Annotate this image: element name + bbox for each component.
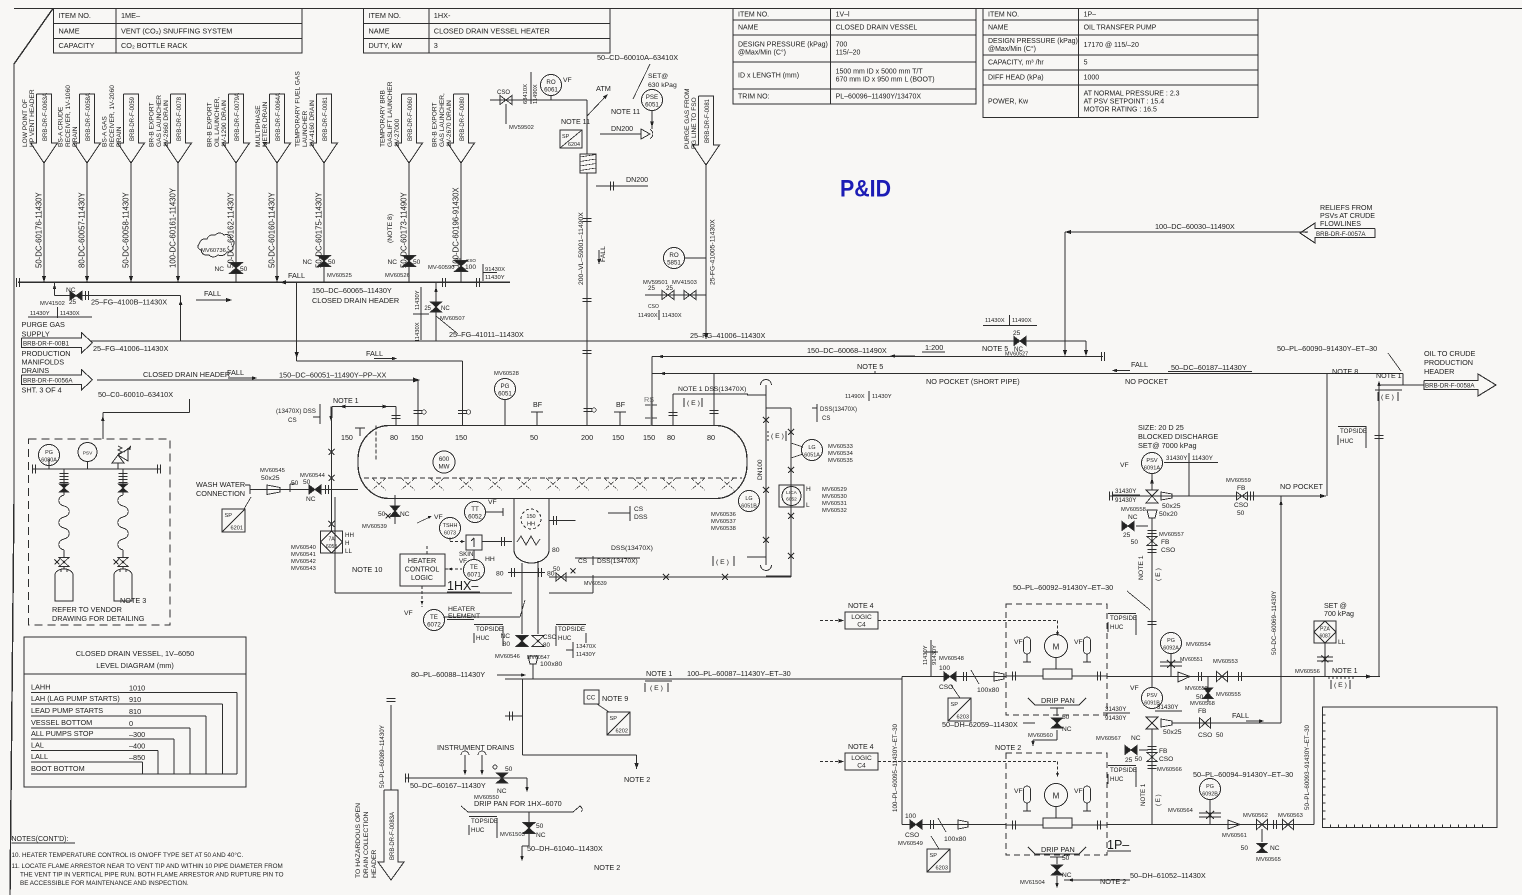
svg-text:50–PL–60093–91430Y–ET–30: 50–PL–60093–91430Y–ET–30: [1304, 724, 1311, 810]
svg-text:50x20: 50x20: [1159, 511, 1178, 518]
svg-text:6071: 6071: [467, 572, 481, 579]
svg-text:MV60528: MV60528: [494, 371, 519, 377]
svg-text:6061: 6061: [544, 87, 558, 94]
svg-text:VF: VF: [404, 610, 413, 617]
svg-text:TOPSIDE: TOPSIDE: [1110, 767, 1137, 774]
svg-text:LAUNCHER: LAUNCHER: [302, 110, 309, 147]
svg-text:NAME: NAME: [369, 26, 390, 35]
svg-text:13470X: 13470X: [576, 644, 596, 650]
svg-text:150: 150: [411, 433, 423, 442]
svg-text:NC: NC: [1062, 726, 1072, 733]
svg-text:MV60507: MV60507: [440, 316, 465, 322]
svg-text:MV60533: MV60533: [828, 444, 853, 450]
svg-text:CSO: CSO: [1234, 502, 1248, 509]
svg-text:PL–60096–11490Y/13470X: PL–60096–11490Y/13470X: [836, 94, 922, 101]
svg-text:GAS LAUNCHER,: GAS LAUNCHER,: [439, 93, 446, 147]
svg-text:6092A: 6092A: [1163, 646, 1179, 652]
svg-text:VF: VF: [1120, 462, 1129, 469]
svg-text:HP VENT HEADER: HP VENT HEADER: [29, 89, 36, 147]
svg-text:MV60543: MV60543: [291, 566, 316, 572]
svg-text:PG: PG: [1167, 638, 1175, 644]
svg-text:ATM: ATM: [596, 84, 611, 93]
svg-text:LOGIC: LOGIC: [411, 574, 433, 582]
svg-text:DN100: DN100: [757, 459, 764, 480]
svg-text:NC: NC: [306, 496, 316, 503]
svg-text:FB: FB: [1198, 708, 1207, 715]
svg-text:NC: NC: [441, 306, 450, 312]
svg-text:50: 50: [328, 259, 336, 266]
svg-text:CAPACITY, m³ /hr: CAPACITY, m³ /hr: [988, 60, 1044, 67]
svg-text:( E ): ( E ): [1334, 682, 1347, 689]
svg-text:BRB-DR-F-0080: BRB-DR-F-0080: [460, 96, 466, 141]
svg-text:NOTE 10: NOTE 10: [352, 565, 382, 574]
svg-text:91430Y: 91430Y: [1115, 497, 1136, 504]
svg-text:11430Y: 11430Y: [30, 311, 50, 317]
svg-text:MV60566: MV60566: [1157, 767, 1182, 773]
svg-text:50-DC-60162-11430Y: 50-DC-60162-11430Y: [227, 191, 236, 268]
svg-text:MV61503: MV61503: [500, 832, 525, 838]
svg-text:6087: 6087: [1319, 634, 1330, 640]
svg-text:NOTE 2: NOTE 2: [1100, 877, 1126, 886]
svg-text:DSS(13470X): DSS(13470X): [611, 545, 653, 552]
svg-text:PG: PG: [501, 383, 510, 390]
svg-text:11. LOCATE FLAME ARRESTOR NEAR: 11. LOCATE FLAME ARRESTOR NEAR TO VENT T…: [12, 863, 283, 870]
svg-text:6201: 6201: [231, 526, 243, 532]
svg-text:AT NORMAL PRESSURE : 2.3: AT NORMAL PRESSURE : 2.3: [1084, 90, 1180, 97]
svg-text:BOOT BOTTOM: BOOT BOTTOM: [31, 764, 85, 773]
svg-text:MV60560: MV60560: [1028, 733, 1053, 739]
svg-text:VENT (CO₂) SNUFFING SYSTEM: VENT (CO₂) SNUFFING SYSTEM: [121, 26, 232, 35]
svg-text:BRB-DR-F-0060: BRB-DR-F-0060: [408, 96, 414, 141]
svg-text:POWER, Kw: POWER, Kw: [988, 98, 1029, 105]
svg-text:LL: LL: [345, 548, 352, 555]
svg-text:MV41502: MV41502: [40, 301, 65, 307]
svg-text:6091A: 6091A: [1144, 466, 1160, 472]
svg-text:NOTE 11: NOTE 11: [611, 108, 640, 116]
svg-text:ITEM NO.: ITEM NO.: [988, 11, 1019, 18]
svg-text:100-DC-60196-91430X: 100-DC-60196-91430X: [452, 187, 461, 268]
svg-text:11430Y: 11430Y: [485, 275, 505, 281]
svg-text:NOTE 9: NOTE 9: [602, 694, 628, 703]
svg-text:H: H: [345, 540, 349, 547]
svg-text:MV60530: MV60530: [822, 494, 847, 500]
svg-text:3: 3: [434, 41, 438, 50]
svg-text:( E ): ( E ): [1155, 794, 1162, 806]
svg-text:1V–Ɩ: 1V–Ɩ: [836, 11, 850, 18]
svg-text:SP: SP: [562, 134, 570, 140]
svg-text:CLOSED DRAIN VESSEL HEATER: CLOSED DRAIN VESSEL HEATER: [434, 26, 550, 35]
svg-text:MV60540: MV60540: [291, 545, 316, 551]
svg-text:11490X: 11490X: [638, 313, 658, 319]
svg-text:ALL PUMPS STOP: ALL PUMPS STOP: [31, 729, 94, 738]
svg-text:NOTE 2: NOTE 2: [594, 863, 620, 872]
svg-text:91430Y: 91430Y: [932, 645, 938, 665]
svg-text:NOTES(CONT'D):: NOTES(CONT'D):: [12, 836, 69, 843]
svg-text:CSO: CSO: [497, 90, 510, 96]
svg-text:50–PL–60090–91430Y–ET–30: 50–PL–60090–91430Y–ET–30: [1277, 344, 1377, 353]
svg-text:PSVs AT CRUDE: PSVs AT CRUDE: [1320, 212, 1375, 220]
svg-text:NAME: NAME: [738, 25, 759, 32]
svg-text:DIFF HEAD (kPa): DIFF HEAD (kPa): [988, 75, 1044, 82]
svg-text:DRIP PAN FOR 1HX–6070: DRIP PAN FOR 1HX–6070: [474, 799, 562, 808]
svg-text:( E ): ( E ): [1381, 394, 1394, 401]
svg-text:( E ): ( E ): [1155, 568, 1162, 581]
svg-text:1500 mm ID x 5000 mm T/T: 1500 mm ID x 5000 mm T/T: [836, 69, 924, 76]
svg-text:SP: SP: [930, 853, 938, 859]
svg-text:SP: SP: [951, 702, 959, 708]
svg-text:L: L: [806, 502, 810, 509]
svg-text:PSV: PSV: [1146, 458, 1157, 464]
svg-text:VF: VF: [1014, 639, 1023, 646]
svg-text:ELEMENT: ELEMENT: [448, 613, 480, 620]
svg-text:FB: FB: [1159, 748, 1168, 755]
svg-text:NC: NC: [1131, 735, 1141, 742]
svg-text:50: 50: [1062, 855, 1070, 862]
svg-text:NO POCKET (SHORT PIPE): NO POCKET (SHORT PIPE): [926, 377, 1020, 386]
svg-text:SET@: SET@: [648, 73, 668, 80]
svg-text:MV60535: MV60535: [828, 458, 853, 464]
svg-text:50: 50: [505, 766, 513, 773]
svg-text:LAHH: LAHH: [31, 683, 50, 692]
svg-text:RS: RS: [644, 395, 654, 404]
svg-text:80-DC-60057-11430Y: 80-DC-60057-11430Y: [78, 191, 87, 268]
svg-text:50: 50: [240, 266, 248, 273]
svg-text:MV60537: MV60537: [711, 519, 736, 525]
svg-text:VF: VF: [563, 77, 572, 84]
svg-text:M: M: [1053, 792, 1060, 801]
svg-text:MULTIPHASE: MULTIPHASE: [255, 105, 262, 147]
svg-text:100x80: 100x80: [944, 836, 967, 843]
svg-text:NAME: NAME: [988, 25, 1009, 32]
svg-text:HH: HH: [485, 556, 495, 563]
svg-text:50: 50: [1062, 714, 1070, 721]
svg-text:BRB-DR-F-0081: BRB-DR-F-0081: [323, 96, 329, 141]
svg-text:50–DC–60187–11430Y: 50–DC–60187–11430Y: [1171, 363, 1247, 372]
svg-text:50–PL–60094–91430Y–ET–30: 50–PL–60094–91430Y–ET–30: [1193, 770, 1293, 779]
svg-text:MV-60590: MV-60590: [428, 265, 454, 271]
svg-text:LEVEL DIAGRAM (mm): LEVEL DIAGRAM (mm): [96, 661, 174, 670]
svg-text:100: 100: [905, 813, 916, 820]
svg-text:HUC: HUC: [558, 635, 572, 642]
svg-text:( E ): ( E ): [771, 433, 784, 440]
svg-text:–300: –300: [129, 730, 145, 739]
svg-text:6203: 6203: [936, 866, 948, 872]
svg-text:MV60559: MV60559: [1226, 478, 1251, 484]
svg-text:1P–: 1P–: [1107, 838, 1129, 852]
svg-text:LALL: LALL: [31, 752, 48, 761]
svg-text:11430Y: 11430Y: [923, 645, 929, 665]
svg-text:50: 50: [553, 566, 560, 573]
svg-text:TOPSIDE: TOPSIDE: [558, 626, 585, 633]
svg-text:50-DC-60176-11430Y: 50-DC-60176-11430Y: [35, 191, 44, 268]
svg-text:50–DC–60167–11430Y: 50–DC–60167–11430Y: [410, 781, 486, 790]
svg-text:ITEM NO.: ITEM NO.: [59, 11, 91, 20]
svg-text:100: 100: [465, 264, 476, 271]
svg-text:OIL TRANSFER PUMP: OIL TRANSFER PUMP: [1084, 25, 1157, 32]
svg-text:150: 150: [612, 433, 624, 442]
svg-text:@Max/Min (C°): @Max/Min (C°): [988, 45, 1036, 53]
svg-text:TEMPORARY FUEL GAS: TEMPORARY FUEL GAS: [295, 71, 302, 147]
svg-text:TRIM NO:: TRIM NO:: [738, 94, 770, 101]
svg-text:1HX-: 1HX-: [434, 11, 451, 20]
svg-text:50: 50: [1135, 756, 1143, 763]
svg-text:NOTE 1: NOTE 1: [1332, 667, 1358, 675]
svg-text:MV59501: MV59501: [643, 280, 668, 286]
svg-text:600: 600: [439, 456, 450, 463]
svg-text:25: 25: [424, 306, 431, 312]
svg-text:1HX–: 1HX–: [447, 579, 478, 593]
svg-text:MV60568: MV60568: [1190, 701, 1215, 707]
svg-text:11430Y: 11430Y: [415, 290, 421, 310]
svg-text:LG: LG: [745, 496, 752, 502]
svg-text:BRB-DR-F-0083A: BRB-DR-F-0083A: [390, 812, 396, 860]
svg-text:(NOTE 8): (NOTE 8): [387, 214, 394, 243]
svg-text:CONTROL: CONTROL: [405, 566, 440, 574]
svg-text:80: 80: [390, 433, 398, 442]
svg-text:HUC: HUC: [476, 635, 490, 642]
svg-text:25–FG–4100B–11430X: 25–FG–4100B–11430X: [91, 298, 167, 307]
svg-text:BRB-DR-F-0058A: BRB-DR-F-0058A: [1425, 383, 1475, 390]
svg-text:PSE: PSE: [646, 94, 658, 101]
svg-text:METER DRAIN: METER DRAIN: [262, 101, 269, 147]
svg-text:CLOSED DRAIN HEADER: CLOSED DRAIN HEADER: [143, 370, 230, 379]
svg-text:HEATER: HEATER: [408, 557, 436, 565]
svg-text:SKIN: SKIN: [459, 551, 473, 558]
svg-text:6202: 6202: [616, 729, 628, 735]
svg-text:11430X: 11430X: [60, 311, 80, 317]
svg-text:OIL TO CRUDE: OIL TO CRUDE: [1424, 349, 1475, 358]
svg-text:DRAWING FOR DETAILING: DRAWING FOR DETAILING: [52, 614, 145, 623]
svg-text:80: 80: [496, 571, 504, 578]
svg-text:150: 150: [341, 434, 353, 442]
svg-text:CSO: CSO: [648, 304, 659, 310]
svg-text:( E ): ( E ): [687, 400, 700, 407]
svg-text:DSS(13470X): DSS(13470X): [820, 407, 857, 413]
svg-text:BR-B EXPORT: BR-B EXPORT: [207, 102, 214, 147]
svg-text:NOTE 11: NOTE 11: [561, 118, 590, 126]
svg-text:PZA: PZA: [1320, 627, 1330, 633]
svg-text:REFER TO VENDOR: REFER TO VENDOR: [52, 605, 122, 614]
svg-text:MV60536: MV60536: [711, 512, 736, 518]
svg-text:PURGE GAS FROM: PURGE GAS FROM: [684, 89, 691, 149]
svg-text:6073: 6073: [444, 531, 456, 537]
svg-text:25-FG-41005-11430X: 25-FG-41005-11430X: [710, 219, 717, 285]
svg-text:CAPACITY: CAPACITY: [59, 41, 95, 50]
svg-text:100: 100: [939, 665, 950, 672]
svg-text:5851: 5851: [667, 260, 681, 267]
svg-text:91430Y: 91430Y: [1105, 715, 1126, 722]
svg-text:NO POCKET: NO POCKET: [1125, 377, 1169, 386]
svg-text:MV60538: MV60538: [711, 526, 736, 532]
svg-text:MV60534: MV60534: [828, 451, 854, 457]
svg-text:910: 910: [129, 695, 141, 704]
svg-text:80: 80: [552, 547, 560, 554]
svg-text:TE: TE: [470, 564, 478, 571]
svg-text:NC: NC: [387, 259, 397, 266]
svg-text:DN200: DN200: [611, 125, 633, 133]
svg-text:NAME: NAME: [59, 26, 80, 35]
svg-text:MV59502: MV59502: [509, 125, 534, 131]
svg-text:RO: RO: [546, 79, 555, 86]
svg-text:DSS: DSS: [634, 514, 648, 521]
svg-text:6204: 6204: [568, 142, 580, 148]
svg-text:1000: 1000: [1084, 75, 1100, 82]
svg-text:HEATER: HEATER: [448, 606, 475, 613]
svg-text:MV60545: MV60545: [260, 468, 285, 474]
svg-text:630 kPag: 630 kPag: [648, 82, 677, 89]
svg-text:PG: PG: [1206, 784, 1214, 790]
svg-text:25: 25: [1125, 757, 1133, 764]
svg-text:11430X: 11430X: [662, 313, 682, 319]
svg-text:CS: CS: [288, 417, 297, 424]
svg-text:LAH (LAG PUMP STARTS): LAH (LAG PUMP STARTS): [31, 694, 120, 703]
svg-text:VESSEL BOTTOM: VESSEL BOTTOM: [31, 718, 92, 727]
svg-text:6053: 6053: [326, 544, 337, 550]
svg-text:MV60558: MV60558: [1121, 507, 1146, 513]
svg-text:50: 50: [1241, 845, 1249, 852]
svg-text:CSO: CSO: [543, 634, 557, 641]
svg-text:50–PL–60092–91430Y–ET–30: 50–PL–60092–91430Y–ET–30: [1013, 583, 1113, 592]
svg-text:CS: CS: [822, 416, 830, 422]
svg-text:NC: NC: [1128, 514, 1138, 521]
svg-text:HUC: HUC: [1340, 438, 1354, 445]
svg-text:M: M: [1053, 643, 1060, 652]
svg-text:BRB-DR-F-0057A: BRB-DR-F-0057A: [1316, 231, 1366, 238]
svg-text:NC: NC: [214, 266, 224, 273]
svg-text:50–DC–60069–11430Y: 50–DC–60069–11430Y: [1271, 591, 1278, 655]
svg-text:NOTE 2: NOTE 2: [624, 775, 650, 784]
svg-text:1P–: 1P–: [1084, 11, 1097, 18]
svg-text:BRB-DR-F-00B1: BRB-DR-F-00B1: [23, 340, 70, 347]
svg-text:HEADER: HEADER: [371, 850, 378, 878]
svg-text:RECEIVER, 1V-1060: RECEIVER, 1V-1060: [65, 85, 72, 147]
svg-text:DRAINS: DRAINS: [22, 366, 50, 375]
svg-text:80: 80: [667, 433, 675, 442]
svg-text:NOTE 3: NOTE 3: [120, 596, 146, 605]
svg-text:DSS(13470X): DSS(13470X): [597, 558, 638, 565]
svg-text:50: 50: [1196, 694, 1204, 701]
svg-text:TEMPORARY BRB: TEMPORARY BRB: [380, 89, 387, 147]
svg-text:NOTE 1: NOTE 1: [646, 669, 672, 678]
svg-text:1:200: 1:200: [925, 343, 943, 352]
svg-text:11490X: 11490X: [1012, 318, 1032, 324]
svg-text:BE ACCESSIBLE FOR MAINTENANCE: BE ACCESSIBLE FOR MAINTENANCE AND INSPEC…: [20, 880, 189, 887]
svg-text:6072: 6072: [427, 622, 441, 629]
svg-text:MV60542: MV60542: [291, 559, 316, 565]
svg-text:6051: 6051: [645, 102, 659, 109]
svg-text:P&ID: P&ID: [840, 176, 891, 203]
svg-text:25: 25: [455, 258, 461, 264]
svg-text:CSO: CSO: [1198, 732, 1212, 739]
svg-text:BRB-DR-F-0078: BRB-DR-F-0078: [177, 96, 183, 141]
svg-text:CS: CS: [634, 506, 644, 513]
svg-text:–850: –850: [129, 753, 145, 762]
svg-text:BR-B EXPORT: BR-B EXPORT: [432, 102, 439, 147]
svg-text:50–DH–62059–11430X: 50–DH–62059–11430X: [942, 720, 1018, 729]
svg-text:MW: MW: [439, 464, 450, 471]
svg-text:MV60555: MV60555: [1216, 692, 1241, 698]
svg-text:1V-4160 DRAIN: 1V-4160 DRAIN: [309, 100, 316, 147]
svg-text:BRB-DR-F-0059: BRB-DR-F-0059: [130, 96, 136, 141]
svg-text:NOTE 1: NOTE 1: [1138, 555, 1145, 580]
svg-text:100–PL–60087–11430Y–ET–30: 100–PL–60087–11430Y–ET–30: [687, 669, 791, 678]
svg-text:25: 25: [1013, 330, 1021, 337]
svg-text:50–PL–60089–11430Y: 50–PL–60089–11430Y: [379, 725, 386, 788]
svg-text:1010: 1010: [129, 684, 145, 693]
svg-text:TO HAZARDOUS OPEN: TO HAZARDOUS OPEN: [355, 803, 362, 878]
svg-text:MV60531: MV60531: [822, 501, 847, 507]
svg-text:FALL: FALL: [1131, 360, 1148, 369]
svg-text:MV60561: MV60561: [1222, 833, 1247, 839]
svg-text:150: 150: [643, 433, 655, 442]
svg-text:NOTE 2: NOTE 2: [995, 743, 1021, 752]
svg-text:TOPSIDE: TOPSIDE: [1110, 615, 1137, 622]
svg-text:FALL: FALL: [366, 349, 383, 358]
svg-text:MV60525: MV60525: [327, 273, 352, 279]
svg-text:6052: 6052: [468, 514, 482, 521]
svg-text:11430Y: 11430Y: [872, 394, 892, 400]
svg-text:31430Y: 31430Y: [1115, 488, 1136, 495]
svg-text:HH: HH: [527, 522, 535, 528]
svg-text:50–C0–60010–63410X: 50–C0–60010–63410X: [98, 390, 173, 399]
svg-text:NOTE 1: NOTE 1: [1140, 783, 1147, 806]
svg-text:BRB-DR-F-0081: BRB-DR-F-0081: [705, 98, 711, 143]
svg-text:50–DH–61040–11430X: 50–DH–61040–11430X: [527, 844, 603, 853]
svg-text:100-DC-60161-11430Y: 100-DC-60161-11430Y: [169, 187, 178, 268]
svg-text:150–DC–60051–11490Y–PP–XX: 150–DC–60051–11490Y–PP–XX: [279, 371, 387, 380]
svg-text:BRB-DR-F-0079A: BRB-DR-F-0079A: [235, 93, 241, 141]
svg-text:50x25: 50x25: [261, 475, 280, 482]
svg-text:SET@ 7000 kPag: SET@ 7000 kPag: [1138, 441, 1197, 450]
svg-text:6051B: 6051B: [741, 504, 757, 510]
svg-text:MOTOR RATING : 16: MOTOR RATING : 16.5: [1084, 106, 1157, 113]
svg-text:MV41503: MV41503: [672, 280, 697, 286]
svg-text:MV60544: MV60544: [300, 473, 326, 479]
svg-text:MV60548: MV60548: [939, 656, 964, 662]
svg-text:50: 50: [536, 823, 544, 830]
svg-text:GAS LAUNCHER: GAS LAUNCHER: [156, 95, 163, 147]
svg-text:MV60549: MV60549: [898, 841, 923, 847]
svg-text:6052: 6052: [786, 497, 797, 503]
svg-text:( E ): ( E ): [716, 559, 729, 566]
svg-text:PSV: PSV: [1147, 693, 1158, 699]
svg-text:NOTE 8: NOTE 8: [1332, 367, 1358, 376]
svg-text:11430X: 11430X: [415, 322, 421, 342]
svg-text:50: 50: [1131, 539, 1139, 546]
svg-text:TE: TE: [430, 614, 438, 621]
svg-text:ITEM NO.: ITEM NO.: [738, 11, 769, 18]
svg-text:DN200: DN200: [626, 176, 648, 184]
svg-text:1V-27000: 1V-27000: [394, 118, 401, 147]
svg-text:BS-A GAS: BS-A GAS: [102, 116, 109, 147]
svg-text:HUC: HUC: [1110, 624, 1124, 631]
svg-text:100x80: 100x80: [977, 687, 1000, 694]
svg-text:80: 80: [707, 433, 715, 442]
svg-text:LAL: LAL: [31, 741, 44, 750]
svg-text:MV60736: MV60736: [201, 248, 226, 254]
svg-text:MV60557: MV60557: [1159, 532, 1184, 538]
svg-text:MV60565: MV60565: [1256, 857, 1281, 863]
svg-text:VF: VF: [488, 499, 497, 506]
svg-text:150: 150: [526, 514, 535, 520]
svg-text:FALL: FALL: [204, 289, 221, 298]
svg-text:SHT. 3 OF 4: SHT. 3 OF 4: [22, 386, 62, 395]
svg-text:TOPSIDE: TOPSIDE: [476, 626, 503, 633]
svg-text:BRB-DR-F-0064A: BRB-DR-F-0064A: [276, 93, 282, 141]
svg-text:LEAD PUMP STARTS: LEAD PUMP STARTS: [31, 706, 103, 715]
svg-text:TT: TT: [471, 506, 479, 513]
svg-text:80: 80: [543, 642, 550, 649]
